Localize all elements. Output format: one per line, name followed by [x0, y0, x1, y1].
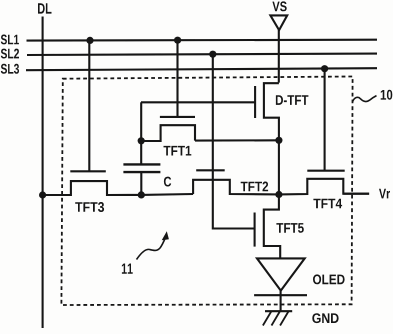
- wire TFT4 gate lead from SL3: [324, 69, 326, 171]
- wire D-TFT gate lead (node A): [141, 101, 255, 103]
- label TFT1: [164, 146, 192, 156]
- label TFT4: [313, 199, 342, 209]
- label D-TFT: [276, 95, 309, 105]
- leader squiggle arrow for label 11: [137, 238, 166, 260]
- net label DL: [38, 3, 52, 13]
- label TFT3: [75, 202, 104, 212]
- terminal label Vr: [379, 189, 390, 199]
- junction on SL3 at TFT4 gate: [321, 65, 328, 72]
- wire TFT1 gate lead from SL1: [176, 40, 178, 117]
- transistor TFT3 channel with leads from DL: [43, 181, 142, 195]
- label C: [164, 177, 171, 187]
- net label SL1: [1, 35, 19, 45]
- wire TFT4 to Vr terminal: [343, 193, 369, 195]
- arrowhead of label 11 leader: [162, 231, 169, 240]
- pixel boundary dashed box 10: [61, 77, 352, 306]
- junction capacitor bottom node: [138, 191, 145, 198]
- wire TFT3 gate lead from SL1: [88, 40, 90, 171]
- capacitor C bottom plate: [123, 171, 160, 173]
- reference label 11: [122, 264, 133, 274]
- label TFT2: [241, 182, 268, 192]
- junction on SL1 at TFT1 gate: [174, 37, 181, 44]
- transistor TFT1 gate bar: [160, 116, 195, 118]
- wire VS supply lead: [278, 30, 280, 83]
- label TFT5: [276, 223, 303, 233]
- ground symbol hatch stroke 3: [280, 312, 288, 326]
- wire node B from TFT1 to D-TFT drain: [195, 139, 279, 141]
- capacitor C top plate: [123, 163, 160, 165]
- transistor TFT3 gate bar: [70, 170, 106, 172]
- wire row from capacitor node to TFT2: [141, 193, 193, 196]
- wire capacitor bottom lead: [140, 172, 142, 195]
- transistor TFT4 channel: [279, 179, 369, 195]
- junction on SL1 at TFT3 gate: [86, 37, 93, 44]
- diode OLED cathode bar: [254, 294, 307, 296]
- wire SL2 to TFT2 gate and TFT5 gate: [213, 54, 255, 228]
- label OLED: [313, 274, 345, 284]
- transistor D-TFT channel: [264, 83, 279, 140]
- ground symbol hatch stroke 1: [263, 312, 271, 326]
- transistor TFT2 gate bar: [196, 169, 225, 171]
- wire D-TFT drain down to row node: [278, 140, 280, 194]
- leader squiggle to label 10: [353, 96, 377, 102]
- wire OLED cathode to ground: [280, 291, 282, 312]
- net label SL2: [1, 49, 19, 59]
- label GND: [312, 313, 338, 323]
- net label VS: [272, 1, 286, 11]
- diode OLED triangle: [257, 258, 305, 290]
- net label SL3: [1, 64, 19, 74]
- transistor TFT2 channel: [193, 180, 279, 195]
- transistor TFT1 channel: [141, 125, 195, 141]
- wire SL2 scan line: [27, 54, 377, 55]
- transistor TFT4 gate bar: [307, 170, 344, 172]
- wire DL data line (vertical): [42, 17, 44, 329]
- ground symbol hatch stroke 2: [272, 312, 280, 326]
- wire SL3 scan line: [26, 68, 377, 70]
- junction on DL at TFT3 source: [39, 191, 46, 198]
- transistor TFT5 channel (drain from row node to OLED): [264, 195, 280, 259]
- wire node A vertical to capacitor top: [140, 102, 142, 164]
- transistor TFT5 gate bar: [254, 213, 256, 247]
- wire SL1 scan line: [27, 39, 378, 42]
- junction on SL2: [209, 51, 216, 58]
- reference label 10: [381, 90, 393, 100]
- transistor D-TFT gate bar: [254, 86, 256, 118]
- junction capacitor top node: [138, 137, 145, 144]
- ground symbol bar: [265, 310, 292, 312]
- power symbol VS triangle: [270, 15, 287, 30]
- junction D-TFT drain node: [275, 137, 282, 144]
- junction TFT2-TFT4-TFT5 node: [275, 191, 282, 198]
